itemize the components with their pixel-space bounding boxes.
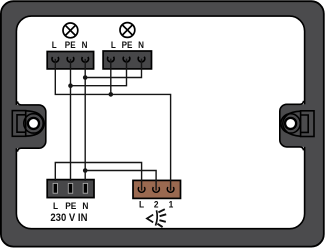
wire: lamp2 L drop to L-line — [110, 59, 112, 95]
enclosure inner window — [16, 16, 304, 229]
illuminated-switch symbol — [147, 209, 166, 227]
lamp E2 symbol — [120, 23, 135, 38]
terminal block X3 (230V input) — [47, 180, 94, 225]
junction dot L-line — [109, 92, 114, 97]
svg-text:L: L — [111, 40, 117, 51]
left screw hole — [24, 114, 43, 133]
junction dot N lower — [83, 168, 88, 173]
left keyhole bracket — [12, 111, 25, 137]
terminal block X4 (switch, brown) — [133, 180, 181, 209]
clamp contacts X1 — [52, 57, 88, 62]
wire: PE branch to lamp2 PE — [71, 59, 127, 86]
svg-text:N: N — [82, 200, 88, 211]
svg-text:PE: PE — [65, 200, 76, 211]
wire: N from input up to lamp1 N — [84, 59, 86, 181]
right keyhole bracket — [301, 111, 314, 137]
wire: N branch to switch terminal 2 — [85, 171, 156, 191]
wire: lamp1 L down and across to switch terminal 1 — [55, 59, 170, 191]
svg-text:PE: PE — [65, 40, 76, 51]
terminal block X1 (lamp output 1) — [47, 40, 93, 69]
clamp contacts X2 — [108, 57, 145, 62]
slot contacts X3 — [53, 183, 88, 193]
svg-text:2: 2 — [154, 199, 159, 210]
wire: N branch to lamp2 N — [85, 59, 141, 78]
right screw hole — [281, 114, 300, 133]
wire: input L over to switch L — [55, 163, 141, 191]
svg-text:PE: PE — [122, 40, 133, 51]
junction dot PE — [68, 83, 73, 88]
junction dot N upper — [83, 75, 88, 80]
left mounting tab — [15, 105, 46, 148]
clamp contacts X4 — [138, 187, 174, 192]
wire: PE from input up to lamp1 PE — [70, 59, 72, 181]
svg-text:L: L — [139, 199, 145, 210]
lamp E1 symbol — [63, 23, 78, 38]
right keyhole blob — [283, 111, 301, 136]
right mounting tab — [280, 104, 306, 147]
svg-text:L: L — [53, 200, 59, 211]
left keyhole blob — [26, 111, 45, 136]
svg-text:1: 1 — [169, 199, 174, 210]
svg-text:230 V IN: 230 V IN — [50, 213, 87, 225]
terminal block X2 (lamp output 2) — [103, 40, 151, 69]
svg-text:N: N — [82, 40, 88, 51]
svg-text:N: N — [138, 40, 144, 51]
svg-text:L: L — [52, 40, 58, 51]
